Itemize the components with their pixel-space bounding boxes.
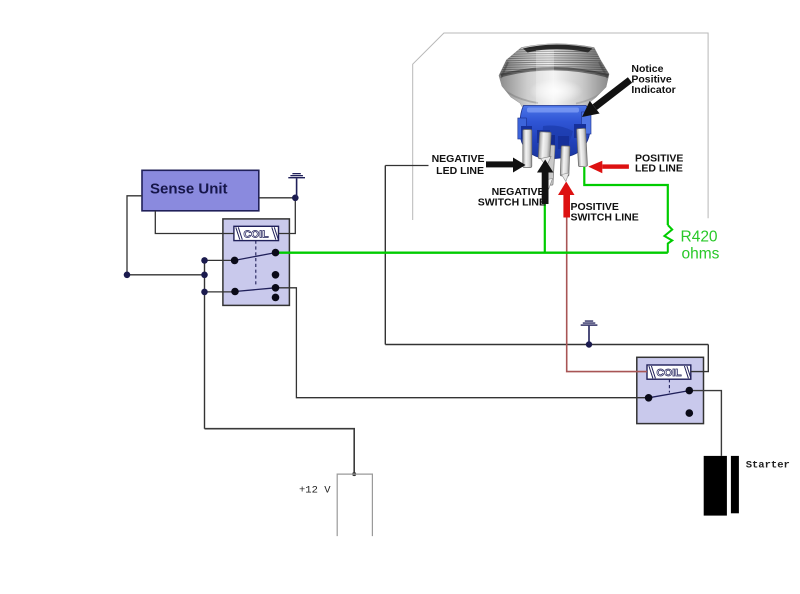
wire: to relay K1 bottom common	[205, 291, 236, 293]
svg-text:COIL: COIL	[244, 229, 270, 241]
svg-text:SWITCH LINE: SWITCH LINE	[571, 212, 639, 224]
relay K1 contact: pole 1 common	[231, 257, 239, 265]
pushbutton pin 4	[560, 146, 570, 176]
svg-text:SWITCH LINE: SWITCH LINE	[478, 197, 546, 209]
wire: ground bus horizontal	[385, 344, 708, 346]
wire: sense unit right to ground junction	[259, 197, 296, 199]
relay K1 coil box	[234, 226, 279, 240]
svg-text:+12 V: +12 V	[299, 485, 331, 497]
svg-text:LED LINE: LED LINE	[635, 163, 683, 175]
ground symbol 1	[288, 173, 305, 198]
wire: to relay K1 top common	[205, 259, 235, 261]
relay K1 blade bottom	[235, 288, 276, 292]
pushbutton photo: metal body	[499, 44, 609, 107]
pushbutton pin 1	[523, 130, 532, 168]
wire: positive switch line (red) to coil K2	[567, 218, 647, 372]
svg-text:COIL: COIL	[657, 367, 683, 379]
junction dot battery top	[352, 472, 356, 476]
Sense Unit box	[142, 170, 259, 211]
wire: sense unit bottom to coil K1	[155, 211, 234, 234]
wire: to +12V battery	[205, 429, 355, 474]
svg-text:ohms: ohms	[682, 246, 720, 263]
relay K1 blade top	[235, 253, 276, 261]
svg-text:Indicator: Indicator	[631, 84, 675, 96]
junction dot column bottom	[201, 289, 208, 296]
relay K2 dashed armature line	[668, 379, 670, 392]
svg-text:R420: R420	[681, 229, 718, 246]
pushbutton photo: base center shadow	[543, 126, 573, 157]
pushbutton photo: threads	[500, 49, 609, 74]
pushbutton photo: bezel dark band	[523, 45, 593, 53]
relay K1 contact: pole 1 NO	[272, 271, 280, 279]
relay K2 blade	[649, 391, 690, 398]
junction dot ground 2	[586, 341, 592, 347]
junction dot ground 1	[292, 195, 299, 202]
resistor R420	[664, 225, 672, 253]
svg-text:Starter: Starter	[746, 459, 790, 471]
relay K1 contact: pole 2 NC	[272, 284, 280, 292]
pushbutton photo: glare highlight	[536, 50, 554, 106]
pushbutton photo: blue base left tab	[518, 118, 527, 139]
pushbutton pin 3 (long rear)	[544, 145, 555, 185]
arrow: positive LED line (left, red)	[602, 164, 629, 168]
wire: negative LED vertical drop	[384, 166, 386, 345]
relay K2 contact: NO	[686, 409, 694, 417]
wire: green bus to relay K1	[276, 251, 668, 253]
pushbutton photo: ferrule below thread ring	[500, 69, 610, 107]
svg-text:Sense Unit: Sense Unit	[150, 181, 228, 198]
arrow: positive switch line (up, red)	[563, 195, 570, 218]
pushbutton pin 5	[577, 128, 588, 166]
wire: coil K1 right to ground junction	[279, 198, 296, 234]
pushbutton photo: blue base	[520, 106, 590, 159]
battery BT1 +12V	[337, 474, 372, 536]
pushbutton pin 2	[538, 132, 551, 160]
ground symbol 2	[581, 320, 598, 344]
relay K2 contact: common	[645, 394, 653, 402]
svg-text:LED LINE: LED LINE	[436, 165, 484, 177]
arrow: negative switch line (up)	[542, 172, 549, 204]
pushbutton photo: pin slot blocks	[521, 126, 532, 139]
arrow: negative LED line	[486, 161, 513, 167]
relay K1 contact: pole 1 NC	[272, 249, 280, 257]
wire: ground bus down to coil K2	[691, 345, 709, 372]
wire: sense unit left loop	[127, 196, 205, 275]
pushbutton photo: base top highlight	[527, 108, 579, 113]
relay K2 coil box	[647, 365, 691, 379]
wire: relay K1 NO contact to relay K2 common	[276, 288, 649, 398]
wire: negative switch line (green)	[544, 203, 546, 253]
wire: relay K2 NO contact to starter	[689, 391, 721, 456]
wire: left column vertical	[204, 260, 206, 428]
wire: negative LED line horizontal	[385, 165, 428, 167]
pushbutton photo: blue base right tab	[582, 112, 592, 134]
junction dot column top	[201, 257, 208, 264]
relay K1 dashed armature line	[255, 241, 257, 286]
relay K2 contact: NC	[686, 387, 694, 395]
relay K1 contact: pole 2 NO	[272, 294, 280, 302]
relay K1 box	[223, 219, 290, 306]
junction dot column mid	[201, 272, 208, 279]
junction dot left	[124, 272, 131, 279]
relay K2 box	[637, 357, 704, 423]
relay K1 contact: pole 2 common	[231, 288, 239, 296]
starter motor M1 bars	[704, 456, 727, 516]
wire: positive LED line (green) through R420	[584, 167, 668, 225]
arrow: notice positive indicator	[595, 80, 630, 107]
photo frame	[413, 33, 708, 220]
pushbutton photo: side shadow arcs	[501, 62, 508, 78]
svg-text:NEGATIVE: NEGATIVE	[432, 153, 485, 165]
